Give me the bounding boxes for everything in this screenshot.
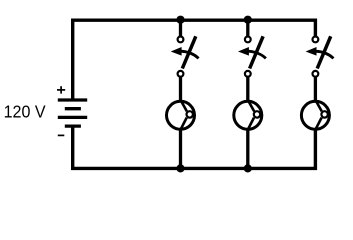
- wire: switch SW1 to lamp L1: [179, 77, 182, 102]
- node: junction dot top rail branch 1: [176, 16, 184, 24]
- wire: lamp L2 to bottom rail: [246, 129, 249, 168]
- label: battery + terminal: [57, 86, 65, 93]
- wire: top rail with left wire down to battery + and right wire down to switch SW3: [73, 20, 316, 98]
- node: junction dot top rail branch 2: [244, 16, 252, 24]
- lamp L2: [234, 101, 262, 131]
- battery B1 plate 4 (short, -): [65, 124, 81, 127]
- battery B1 plate 2 (short): [65, 107, 81, 110]
- wire: switch SW3 to lamp L3: [314, 77, 317, 102]
- switch SW1 (open, with actuation arrow): [171, 36, 199, 76]
- wire: branch 1 top rail to switch SW1: [179, 20, 182, 36]
- battery B1 plate 1 (long, +): [58, 98, 87, 101]
- label: battery - terminal: [58, 134, 65, 136]
- switch SW2 (open, with actuation arrow): [238, 36, 266, 76]
- wire: branch 2 top rail to switch SW2: [246, 20, 249, 36]
- lamp L1: [167, 101, 195, 131]
- switch SW3 (open, with actuation arrow): [306, 36, 334, 76]
- wire: switch SW2 to lamp L2: [246, 77, 249, 102]
- node: junction dot bottom rail branch 2: [244, 164, 252, 172]
- battery B1 plate 3 (long): [58, 116, 87, 119]
- wire: bottom rail with left wire up to battery - and right wire up to lamp L3: [73, 125, 316, 168]
- lamp L3: [301, 101, 329, 131]
- svg-text:120 V: 120 V: [4, 101, 46, 121]
- wire: lamp L1 to bottom rail: [179, 129, 182, 168]
- node: junction dot bottom rail branch 1: [176, 164, 184, 172]
